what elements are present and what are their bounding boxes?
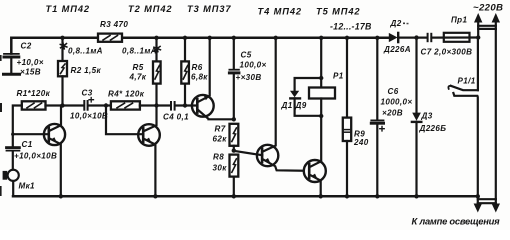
mains terminal arrows 220V (474, 13, 500, 38)
node diode D1 top (319, 76, 323, 80)
svg-text:R4* 120к: R4* 120к (108, 90, 145, 99)
wire relay column lower (320, 99, 322, 117)
relay contact P1/1 (448, 38, 477, 197)
node diode D1 bottom (319, 114, 323, 118)
svg-text:C5: C5 (241, 51, 252, 60)
wire T4 base lead (234, 151, 262, 155)
svg-text:C2: C2 (21, 42, 32, 51)
svg-text:R7: R7 (215, 125, 226, 134)
wire right mains line (495, 29, 497, 199)
node D3 top (414, 35, 418, 39)
node C5 top rail (232, 36, 236, 40)
node collector T1 (60, 36, 64, 40)
svg-text:C4 0,1: C4 0,1 (163, 113, 189, 122)
svg-text:4,7к: 4,7к (129, 73, 147, 82)
svg-text:0,8..1мА: 0,8..1мА (68, 47, 103, 56)
svg-text:Т4 МП42: Т4 МП42 (258, 7, 303, 17)
transistor T1 (13, 106, 65, 197)
svg-text:Д3: Д3 (421, 112, 433, 121)
resistor R3 (98, 34, 122, 42)
svg-text:Пр1: Пр1 (451, 16, 467, 25)
capacitor C5 (229, 38, 239, 120)
svg-text:×20В: ×20В (382, 109, 403, 118)
node R5 top rail (154, 36, 158, 40)
svg-text:6,8к: 6,8к (191, 73, 208, 82)
svg-text:+10,0×: +10,0× (17, 58, 44, 67)
wire relay column upper (320, 38, 322, 88)
svg-text:C7 2,0×300В: C7 2,0×300В (421, 48, 473, 57)
svg-text:Д226Б: Д226Б (419, 124, 447, 133)
capacitor C3 (84, 98, 93, 110)
wire R9 top lead (346, 38, 348, 118)
node T4 collector rail (274, 36, 278, 40)
diode D2 (389, 33, 398, 42)
svg-text:Т2 МП42: Т2 МП42 (128, 4, 173, 14)
svg-text:C3: C3 (82, 89, 93, 98)
node T3 collector R7 (232, 117, 236, 121)
resistor R2 (58, 61, 67, 76)
node R8 bottom rail (232, 194, 236, 198)
svg-text:1000,0×: 1000,0× (381, 98, 413, 107)
wire R8 bottom lead (233, 177, 235, 197)
svg-text:R2 1,5к: R2 1,5к (71, 66, 102, 75)
fuse Pr1 (444, 33, 470, 42)
svg-text:10,0×10В: 10,0×10В (70, 112, 108, 121)
node T2 emitter rail (153, 194, 157, 198)
svg-text:30к: 30к (213, 164, 228, 173)
svg-text:Д226А: Д226А (383, 45, 411, 54)
svg-text:+×30В: +×30В (236, 73, 262, 82)
node R5 C4 collector T2 (154, 103, 158, 107)
wire R2 bottom lead (61, 76, 63, 105)
wire C3 to T2 base node (88, 104, 111, 106)
svg-text:62к: 62к (213, 135, 228, 144)
node R9 bottom rail (345, 194, 349, 198)
capacitor C7 (428, 34, 432, 41)
transistor T5 (304, 116, 326, 196)
scan artifact left edge (0, 103, 2, 112)
svg-text:К лампе освещения: К лампе освещения (412, 216, 501, 227)
node relay top rail (319, 36, 323, 40)
diode D1 branch (290, 78, 321, 116)
svg-text:Д2: Д2 (390, 19, 402, 28)
wire top rail C7 to fuse to terminal (432, 36, 479, 38)
node lamp terminal rail (476, 194, 480, 198)
transistor T3 (192, 38, 234, 120)
node T5 emitter rail (319, 194, 323, 198)
asterisk measure point T1 (60, 43, 67, 49)
lamp terminal arrows (474, 196, 500, 212)
wire R5 top lead (155, 38, 157, 62)
node C6 bottom rail (375, 194, 379, 198)
node T1 base C1 (11, 133, 14, 136)
microphone Mk1 (3, 170, 19, 197)
node R1 R2 C3 collector (60, 103, 64, 107)
svg-text:0,8..1мА: 0,8..1мА (122, 47, 157, 56)
svg-text:×15В: ×15В (20, 68, 41, 77)
node T3 emitter rail (208, 36, 212, 40)
svg-text:R8: R8 (213, 153, 224, 162)
svg-text:R5: R5 (133, 63, 144, 72)
svg-text:C1: C1 (22, 140, 33, 149)
resistor R6 (181, 61, 189, 83)
svg-text:Р1: Р1 (333, 72, 344, 81)
transistor T4 (257, 38, 304, 171)
resistor R8 (230, 155, 239, 177)
wire R6 top lead (184, 38, 186, 62)
svg-text:+10,0×10В: +10,0×10В (14, 152, 57, 161)
wire bottom common rail (13, 195, 478, 198)
svg-text:240: 240 (353, 138, 369, 147)
capacitor C6 (371, 38, 384, 197)
svg-text:Д1: Д1 (281, 101, 293, 110)
svg-text:Т3 МП37: Т3 МП37 (187, 4, 232, 14)
wire R1 right to node (46, 104, 84, 106)
resistor R1 (22, 101, 46, 109)
svg-text:Т5 МП42: Т5 МП42 (316, 7, 361, 17)
node R9 top rail (345, 36, 349, 40)
node R6 top rail (183, 36, 187, 40)
capacitor C2 (4, 54, 20, 74)
node R6 bottom (183, 103, 187, 107)
svg-text:C6: C6 (388, 87, 399, 96)
wire R7 to node (233, 146, 235, 151)
svg-text:100,0×: 100,0× (240, 61, 267, 70)
resistor R7 (230, 124, 239, 146)
wire R4 right to node (140, 104, 171, 106)
node T2 base column (104, 103, 108, 107)
resistor R4 (111, 101, 140, 109)
relay coil P1 (309, 88, 335, 99)
transistor T2 (138, 106, 160, 197)
resistor R9 (343, 118, 351, 141)
wire C4 to T3 base (175, 104, 197, 106)
wire R9 bottom lead (346, 141, 348, 196)
svg-text:Т1 МП42: Т1 МП42 (46, 4, 91, 14)
node fuse mains terminal (476, 35, 480, 39)
asterisk measure point T2 (154, 45, 161, 51)
wire R6 bottom lead (184, 84, 186, 106)
svg-text:Мк1: Мк1 (19, 182, 36, 191)
svg-text:-12...-17В: -12...-17В (330, 22, 372, 32)
wire R1 left to C1/base column (13, 106, 22, 147)
node T1 emitter rail (59, 194, 63, 198)
svg-text:Р1/1: Р1/1 (458, 77, 476, 86)
wire top rail right of D2 (399, 36, 428, 38)
wire R2 top lead (61, 38, 63, 61)
wire T2 base column (106, 106, 143, 135)
capacitor C1 (7, 148, 20, 170)
svg-text:R1*120к: R1*120к (17, 89, 51, 98)
capacitor C4 (171, 102, 175, 110)
svg-text:~220В: ~220В (473, 3, 503, 14)
node R7 R8 T4 base (232, 148, 236, 152)
node D3 bottom rail (414, 194, 418, 198)
wire top negative rail (11, 38, 389, 54)
wire R5 bottom lead (155, 84, 157, 106)
svg-text:Д9: Д9 (295, 101, 307, 110)
resistor R5 (153, 61, 161, 83)
svg-text:R6: R6 (192, 63, 203, 72)
node C6 top rail (375, 36, 379, 40)
diode D3 (412, 38, 421, 197)
svg-text:R3 470: R3 470 (100, 20, 128, 29)
